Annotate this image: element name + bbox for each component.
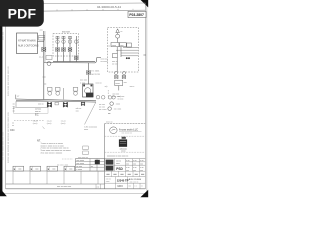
svg-text:xx: xx — [141, 185, 143, 187]
top strip lower line — [6, 10, 146, 11]
revision strip top line — [6, 170, 105, 172]
revision strip lower line — [6, 183, 105, 185]
left list text — [13, 103, 15, 112]
branch line 1 — [57, 36, 59, 62]
svg-text:EC: EC — [35, 113, 39, 117]
svg-text:A 05-17-2004: A 05-17-2004 — [129, 178, 142, 181]
corner fold triangle bottom-right — [140, 190, 148, 197]
svg-text:xxx xxxx: xxx xxxx — [76, 163, 84, 165]
svg-text:xx xxx x xxx: xx xxx x xxx — [57, 165, 69, 167]
typ marker boxes — [83, 146, 88, 150]
equipment boxes under main pipe — [16, 101, 48, 107]
svg-text:x xx: x xx — [126, 160, 129, 162]
divider under logo row — [105, 135, 146, 137]
valves on branches — [56, 47, 78, 60]
drawing frame right border — [144, 3, 146, 189]
revision header box 1 — [13, 166, 24, 171]
svg-text:xx xxx: xx xxx — [118, 99, 125, 101]
svg-text:xxx: xxx — [52, 169, 55, 171]
instrument cluster 3 above main pipe — [73, 88, 78, 92]
svg-text:xxx: xxx — [128, 185, 131, 187]
svg-text:x x: x x — [134, 185, 136, 187]
valve on riser — [42, 47, 46, 51]
svg-text:xxxxx xxx xxxxxx xx xxxxxxx xx: xxxxx xxx xxxxxx xx xxxxxxx xxx xxxx xxx… — [7, 111, 10, 163]
svg-text:(xxx): (xxx) — [33, 123, 38, 125]
riser pipe — [43, 31, 45, 99]
title block top edge — [105, 123, 146, 125]
cluster lines to right edge — [116, 49, 138, 51]
row line — [105, 176, 146, 178]
cluster boxes in box B — [111, 43, 119, 47]
PDF badge — [0, 0, 44, 27]
svg-text:12345 TP: 12345 TP — [117, 179, 129, 183]
instrument bubbles on branches — [56, 36, 78, 43]
main pipe start tick — [15, 95, 17, 100]
relief valve symbol — [116, 29, 120, 33]
svg-text:xx): xx) — [105, 86, 108, 88]
svg-text:x xx: x xx — [140, 167, 143, 169]
svg-text:(xxx xxx): (xxx xxx) — [112, 96, 121, 98]
svg-text:xx: xx — [120, 31, 122, 33]
branch line 2 — [63, 36, 65, 62]
page right edge — [146, 1, 148, 193]
svg-text:PSD: PSD — [116, 167, 123, 171]
dashed utility line — [14, 119, 45, 121]
svg-text:xxx xx: xxx xx — [38, 104, 44, 106]
strainer unit — [83, 84, 94, 97]
page background — [0, 0, 149, 198]
svg-text:x xx: x xx — [140, 160, 143, 162]
svg-text:xxxx: xxxx — [116, 163, 120, 165]
main pipe — [16, 99, 96, 101]
corner fold triangle bottom-left — [0, 188, 7, 196]
corner fold triangle top-right — [141, 0, 149, 7]
revision strip dividers — [13, 171, 98, 184]
revision header box 3 — [47, 166, 58, 171]
small box lower left in box B — [112, 54, 117, 58]
left list text 2 — [12, 122, 15, 127]
contractor name above logo — [122, 137, 126, 139]
svg-text:xxx: xxx — [133, 170, 136, 172]
svg-text:xxxx xxxx xxx xxxxx xxxx xx: xxxx xxxx xxx xxxxx xxxx xx — [7, 66, 10, 96]
vertical pair in box B — [116, 47, 118, 72]
svg-text:x xx: x xx — [133, 167, 136, 169]
page bottom edge — [2, 192, 147, 194]
svg-text:F03-2807: F03-2807 — [129, 13, 144, 17]
svg-text:x x: x x — [97, 186, 100, 188]
signature dashes — [106, 173, 144, 175]
header elbow up — [95, 57, 101, 62]
dark valve on pipe at unit outlet — [81, 102, 85, 106]
svg-text:xx xxx: xx xxx — [76, 166, 82, 168]
small tag box with bubble left of header — [46, 56, 52, 60]
dark valve 1 on main pipe — [47, 102, 51, 107]
svg-text:xx: xx — [91, 166, 93, 168]
svg-text:xxxxxxxx xx xxx xxxx xx: xxxxxxxx xx xxx xxxx xx — [107, 156, 128, 158]
control valve on drop — [87, 70, 91, 74]
svg-text:xxxx xxx: xxxx xxx — [3, 31, 5, 40]
svg-text:xx: xx — [98, 163, 100, 165]
sheet number box F03-2807 — [128, 11, 146, 17]
svg-text:4 xx xxx xxxxx x xxxxxx: 4 xx xxx xxxxx x xxxxxx — [41, 153, 64, 155]
svg-text:A xxxx xxxIx LLC: A xxxx xxxIx LLC — [119, 129, 138, 132]
bubble below relief — [116, 34, 120, 38]
svg-text:04-30000-00-5-44: 04-30000-00-5-44 — [97, 5, 121, 9]
divider — [105, 151, 146, 153]
svg-text:AT WAT R MAIN: AT WAT R MAIN — [18, 40, 36, 43]
drop line to unit — [88, 63, 90, 84]
small mark — [108, 112, 110, 114]
title underline — [105, 158, 146, 160]
svg-text:xx x xxx: xx x xxx — [99, 109, 107, 111]
wire panel to riser — [38, 41, 44, 43]
svg-text:xxx xxxx xxxxx xxxx xxx xxxx: xxx xxxx xxxxx xxxx xxx xxxx — [2, 131, 4, 160]
svg-text:xxx xx xxxx xxx: xxx xx xxxx xxx — [57, 186, 72, 188]
contractor dark logo — [119, 139, 127, 146]
riser branch ticks — [43, 76, 46, 78]
drawing number row — [115, 177, 117, 189]
branch line 4 — [75, 36, 77, 62]
svg-text:x xx: x xx — [133, 160, 136, 162]
svg-text:xxx xxxxx xx: xxx xxxxx xx — [122, 133, 133, 135]
svg-text:xx: xx — [13, 111, 15, 113]
approvals dark stamp 1 — [106, 160, 114, 165]
right margin tick — [143, 54, 146, 56]
svg-text:xxx xx: xxx xx — [96, 82, 103, 84]
top strip tick marks — [57, 9, 133, 11]
svg-text:xxx: xxx — [18, 169, 21, 171]
svg-text:xxx: xxx — [69, 169, 72, 171]
approvals dark stamp 2 — [106, 166, 114, 171]
svg-text:x xx: x xx — [126, 167, 129, 169]
revision block right — [76, 157, 105, 171]
bubble PI — [108, 107, 112, 111]
svg-text:xxx: xxx — [35, 169, 38, 171]
instrument panel box — [17, 33, 38, 54]
revision header box 4 — [64, 166, 75, 171]
dashed drop — [107, 90, 109, 98]
dashed box A — [53, 34, 79, 57]
svg-text:xx: xx — [108, 45, 110, 47]
panel tag boxes — [39, 35, 45, 37]
small cell texts — [116, 160, 143, 166]
svg-text:xxx: xxx — [140, 170, 143, 172]
twin valves below box B — [115, 72, 118, 75]
svg-text:xxx: xxx — [126, 170, 129, 172]
svg-text:PDF: PDF — [8, 6, 37, 22]
bubble LI — [110, 102, 114, 106]
small marks between clusters — [63, 88, 65, 99]
top strip upper line — [6, 3, 146, 4]
svg-text:xxx xxx: xxx xxx — [62, 31, 71, 34]
svg-text:xxx xx: xxx xx — [35, 111, 41, 113]
header pipe — [53, 60, 95, 62]
svg-text:xxx: xxx — [126, 164, 129, 166]
instrument cluster 1 above main pipe — [47, 88, 52, 92]
dark valve 2 on main pipe — [63, 102, 67, 107]
company logo oval — [110, 127, 117, 134]
dark label box above main pipe — [86, 93, 93, 98]
svg-text:(xxx): (xxx) — [47, 123, 52, 125]
instrument cluster 2 above main pipe — [56, 92, 60, 96]
svg-text:x xxxx: x xxxx — [76, 169, 82, 171]
signature row line — [105, 170, 146, 172]
small valve mark — [55, 102, 58, 105]
title table row 1 — [114, 159, 116, 172]
svg-text:xx xxx: xx xxx — [112, 64, 119, 66]
svg-text:xxx: xxx — [76, 111, 79, 113]
stem to cluster — [117, 38, 119, 42]
drop below — [118, 86, 120, 91]
svg-text:xxx xxxx xx: xxx xxxx xx — [78, 157, 88, 159]
svg-text:(xxx xx: (xxx xx — [106, 121, 113, 123]
revision header box 2 — [30, 166, 41, 171]
box with text below valves — [115, 80, 123, 85]
title block left edge — [104, 124, 106, 189]
svg-text:x x x x x x x: x x x x x x x — [62, 158, 72, 160]
drawing frame bottom border — [6, 188, 146, 190]
row line — [105, 182, 146, 184]
svg-text:UR II: UR II — [117, 185, 123, 188]
two dots — [126, 57, 128, 59]
dashed box B — [108, 28, 139, 72]
svg-text:HV 1211: HV 1211 — [92, 74, 101, 76]
svg-text:xxx xxx: xxx xxx — [80, 80, 88, 82]
branch labels below main pipe — [33, 120, 67, 125]
instrument bubbles right of main pipe — [96, 95, 100, 99]
svg-text:LV 1211: LV 1211 — [92, 71, 101, 73]
signature cells — [112, 171, 140, 176]
svg-text:xxx: xxx — [140, 164, 143, 166]
leader line diagonal — [85, 103, 96, 125]
svg-text:xx x xxx: xx x xxx — [114, 109, 122, 111]
page left scan edge black strip — [0, 13, 2, 192]
svg-text:xxx: xxx — [133, 164, 136, 166]
svg-text:xxxx: xxxx — [106, 181, 110, 183]
svg-text:ALM 1 OUTGOING: ALM 1 OUTGOING — [18, 45, 39, 48]
branch line 3 — [69, 36, 71, 62]
svg-text:(xxx): (xxx) — [61, 123, 66, 125]
svg-text:xxx xxxx: xxx xxxx — [76, 160, 84, 162]
drawing frame left border — [5, 4, 7, 189]
right text block — [99, 104, 107, 111]
left margin vertical text — [2, 31, 9, 163]
